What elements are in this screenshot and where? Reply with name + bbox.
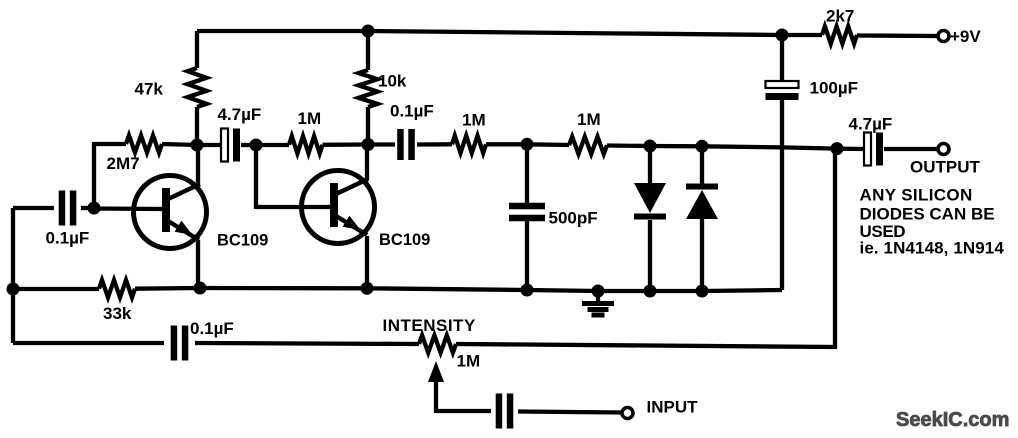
label 1M pot (457, 352, 481, 371)
wire to C 4.7uF (197, 143, 220, 147)
resistor 2k7 (822, 26, 857, 43)
terminal INPUT (622, 408, 633, 419)
node ground symbol (592, 285, 605, 298)
resistor 1M first (289, 136, 323, 153)
label 0.1uF feedback (190, 319, 234, 338)
wire 1M to node 500pF (486, 142, 527, 146)
svg-text:BC109: BC109 (379, 231, 430, 249)
label 1M first (298, 109, 322, 128)
resistor 33k (99, 280, 135, 297)
node Q2 emitter rail (361, 282, 374, 295)
svg-text:1M: 1M (298, 109, 322, 128)
wire D1 bottom lead (648, 220, 652, 291)
label INTENSITY (383, 316, 476, 335)
wire 100uF bottom lead to ground rail (780, 100, 784, 290)
wire wiper to input cap (436, 409, 491, 413)
label 0.1uF interstage (390, 102, 434, 121)
wire D2 bottom lead (700, 219, 704, 291)
wire 500pF top lead (525, 144, 529, 203)
node diode D1 (644, 140, 657, 153)
label 4.7uF (218, 105, 262, 124)
wire Q2 base riser (256, 145, 330, 207)
node Q1 emitter rail (194, 282, 207, 295)
wire left edge vertical (11, 208, 15, 343)
wire 2M7 left riser (94, 144, 126, 208)
capacitor 4.7uF (221, 129, 240, 162)
label BC109 Q2 (379, 231, 430, 249)
label BC109 Q1 (217, 232, 268, 250)
diode D1 1N4148 (634, 183, 666, 217)
wire 33k rail left (13, 287, 99, 291)
node D2 ground (696, 285, 709, 298)
svg-text:ANY SILICON: ANY SILICON (860, 186, 973, 205)
watermark SeekIC.com (896, 409, 1009, 431)
capacitor 0.1uF input (62, 191, 73, 226)
svg-text:4.7µF: 4.7µF (218, 105, 262, 124)
svg-text:BC109: BC109 (217, 232, 268, 250)
svg-text:1M: 1M (462, 111, 486, 130)
label 1M second (462, 111, 486, 130)
node diode D2 (696, 140, 709, 153)
capacitor 4.7uF output (864, 133, 883, 166)
svg-text:DIODES CAN BE: DIODES CAN BE (860, 205, 995, 224)
resistor 10k (359, 70, 378, 107)
label 33k (103, 304, 132, 323)
wire 500pF bottom lead (525, 221, 529, 290)
svg-text:47k: 47k (135, 80, 164, 99)
svg-text:1M: 1M (457, 352, 481, 371)
label 0.1uF input (46, 229, 90, 248)
wire 10k top lead (366, 31, 370, 70)
wire C to 1M (417, 142, 452, 146)
node Q1 collector (191, 139, 204, 152)
ground symbol (582, 291, 614, 315)
wire input cap to base node (81, 206, 94, 210)
wire lower loop middle (195, 343, 419, 344)
wire D1 top lead (648, 146, 652, 183)
wire 2M7 right lead (162, 144, 197, 145)
potentiometer INTENSITY 1M (419, 335, 456, 352)
label 100uF (810, 79, 859, 98)
wire 47k bottom lead (195, 107, 199, 145)
capacitor 500pF (509, 206, 545, 218)
resistor 2M7 (126, 135, 162, 152)
capacitor 0.1uF interstage (400, 129, 411, 160)
wire 1M to diodes (607, 146, 837, 149)
svg-text:SeekIC.com: SeekIC.com (896, 409, 1009, 431)
terminal +9V (938, 31, 949, 42)
capacitor 0.1uF feedback (174, 326, 185, 361)
wire Q2 collector lead (365, 145, 369, 181)
wire node to 1M third (527, 142, 569, 147)
resistor 1M third (569, 137, 607, 154)
node left 33k rail (7, 283, 20, 296)
node D1 ground (644, 285, 657, 298)
wire node to C 0.1uF (368, 142, 395, 146)
svg-text:0.1µF: 0.1µF (46, 229, 90, 248)
label 47k (135, 80, 164, 99)
wire Q2 emitter lead (365, 236, 369, 288)
wire 1M to node 10k (323, 142, 369, 147)
wire output cap to terminal (884, 147, 938, 151)
transistor Q1 BC109 (134, 176, 207, 249)
label OUTPUT (910, 158, 981, 177)
label 4.7uF output (849, 115, 893, 134)
wire to INPUT terminal (518, 412, 622, 413)
label 10k (378, 72, 407, 91)
wire top +9V supply rail (197, 31, 938, 36)
label 2M7 (107, 154, 140, 173)
node 500pF branch (521, 138, 534, 151)
terminal OUTPUT (938, 144, 949, 155)
svg-text:33k: 33k (103, 304, 132, 323)
node Q2 base branch (250, 139, 263, 152)
diode D2 1N4148 (686, 187, 718, 220)
svg-text:0.1µF: 0.1µF (190, 319, 234, 338)
svg-text:2M7: 2M7 (107, 154, 140, 173)
svg-text:1M: 1M (577, 110, 601, 129)
svg-text:ie. 1N4148, 1N914: ie. 1N4148, 1N914 (860, 239, 1005, 258)
pot wiper arrow (428, 361, 444, 413)
svg-text:10k: 10k (378, 72, 407, 91)
wire 10k bottom lead (366, 107, 370, 144)
label 500pF (549, 209, 598, 228)
wire C 4.7uF to node (241, 143, 256, 147)
label INPUT (647, 398, 699, 417)
wire lower loop left (13, 341, 164, 345)
svg-text:500pF: 500pF (549, 209, 598, 228)
svg-text:OUTPUT: OUTPUT (910, 158, 981, 177)
wire lower loop right (456, 149, 835, 347)
svg-text:INPUT: INPUT (647, 398, 699, 417)
wire 100uF top lead (780, 35, 784, 81)
svg-text:100µF: 100µF (810, 79, 859, 98)
resistor 47k (188, 68, 207, 107)
node supply rail / 100uF (776, 29, 789, 42)
svg-text:4.7µF: 4.7µF (849, 115, 893, 134)
capacitor 100uF (766, 81, 799, 100)
wire ground rail (135, 288, 782, 291)
capacitor input series (499, 394, 510, 429)
node output branch (831, 142, 844, 155)
label +9V (950, 27, 981, 46)
wire node to 1M (256, 143, 289, 147)
wire Q1 collector lead (196, 145, 200, 184)
node Q1 base (88, 202, 101, 215)
node top rail / 10k (362, 25, 375, 38)
wire input cap left lead (13, 206, 54, 210)
wire node to output cap (837, 146, 863, 151)
wire Q1 emitter lead (196, 240, 200, 288)
svg-text:INTENSITY: INTENSITY (383, 316, 476, 335)
wire D2 top lead (700, 146, 704, 184)
transistor Q2 BC109 (302, 171, 375, 244)
note any silicon diodes (860, 186, 1005, 258)
label 2k7 (826, 7, 854, 26)
node 500pF ground (521, 284, 534, 297)
wire 47k top lead (195, 31, 199, 68)
svg-text:+9V: +9V (950, 27, 981, 46)
svg-text:0.1µF: 0.1µF (390, 102, 434, 121)
node Q2 collector (362, 138, 375, 151)
resistor 1M second (452, 136, 486, 153)
wire Q1 base lead (94, 206, 163, 211)
svg-text:2k7: 2k7 (826, 7, 854, 26)
label 1M third (577, 110, 601, 129)
